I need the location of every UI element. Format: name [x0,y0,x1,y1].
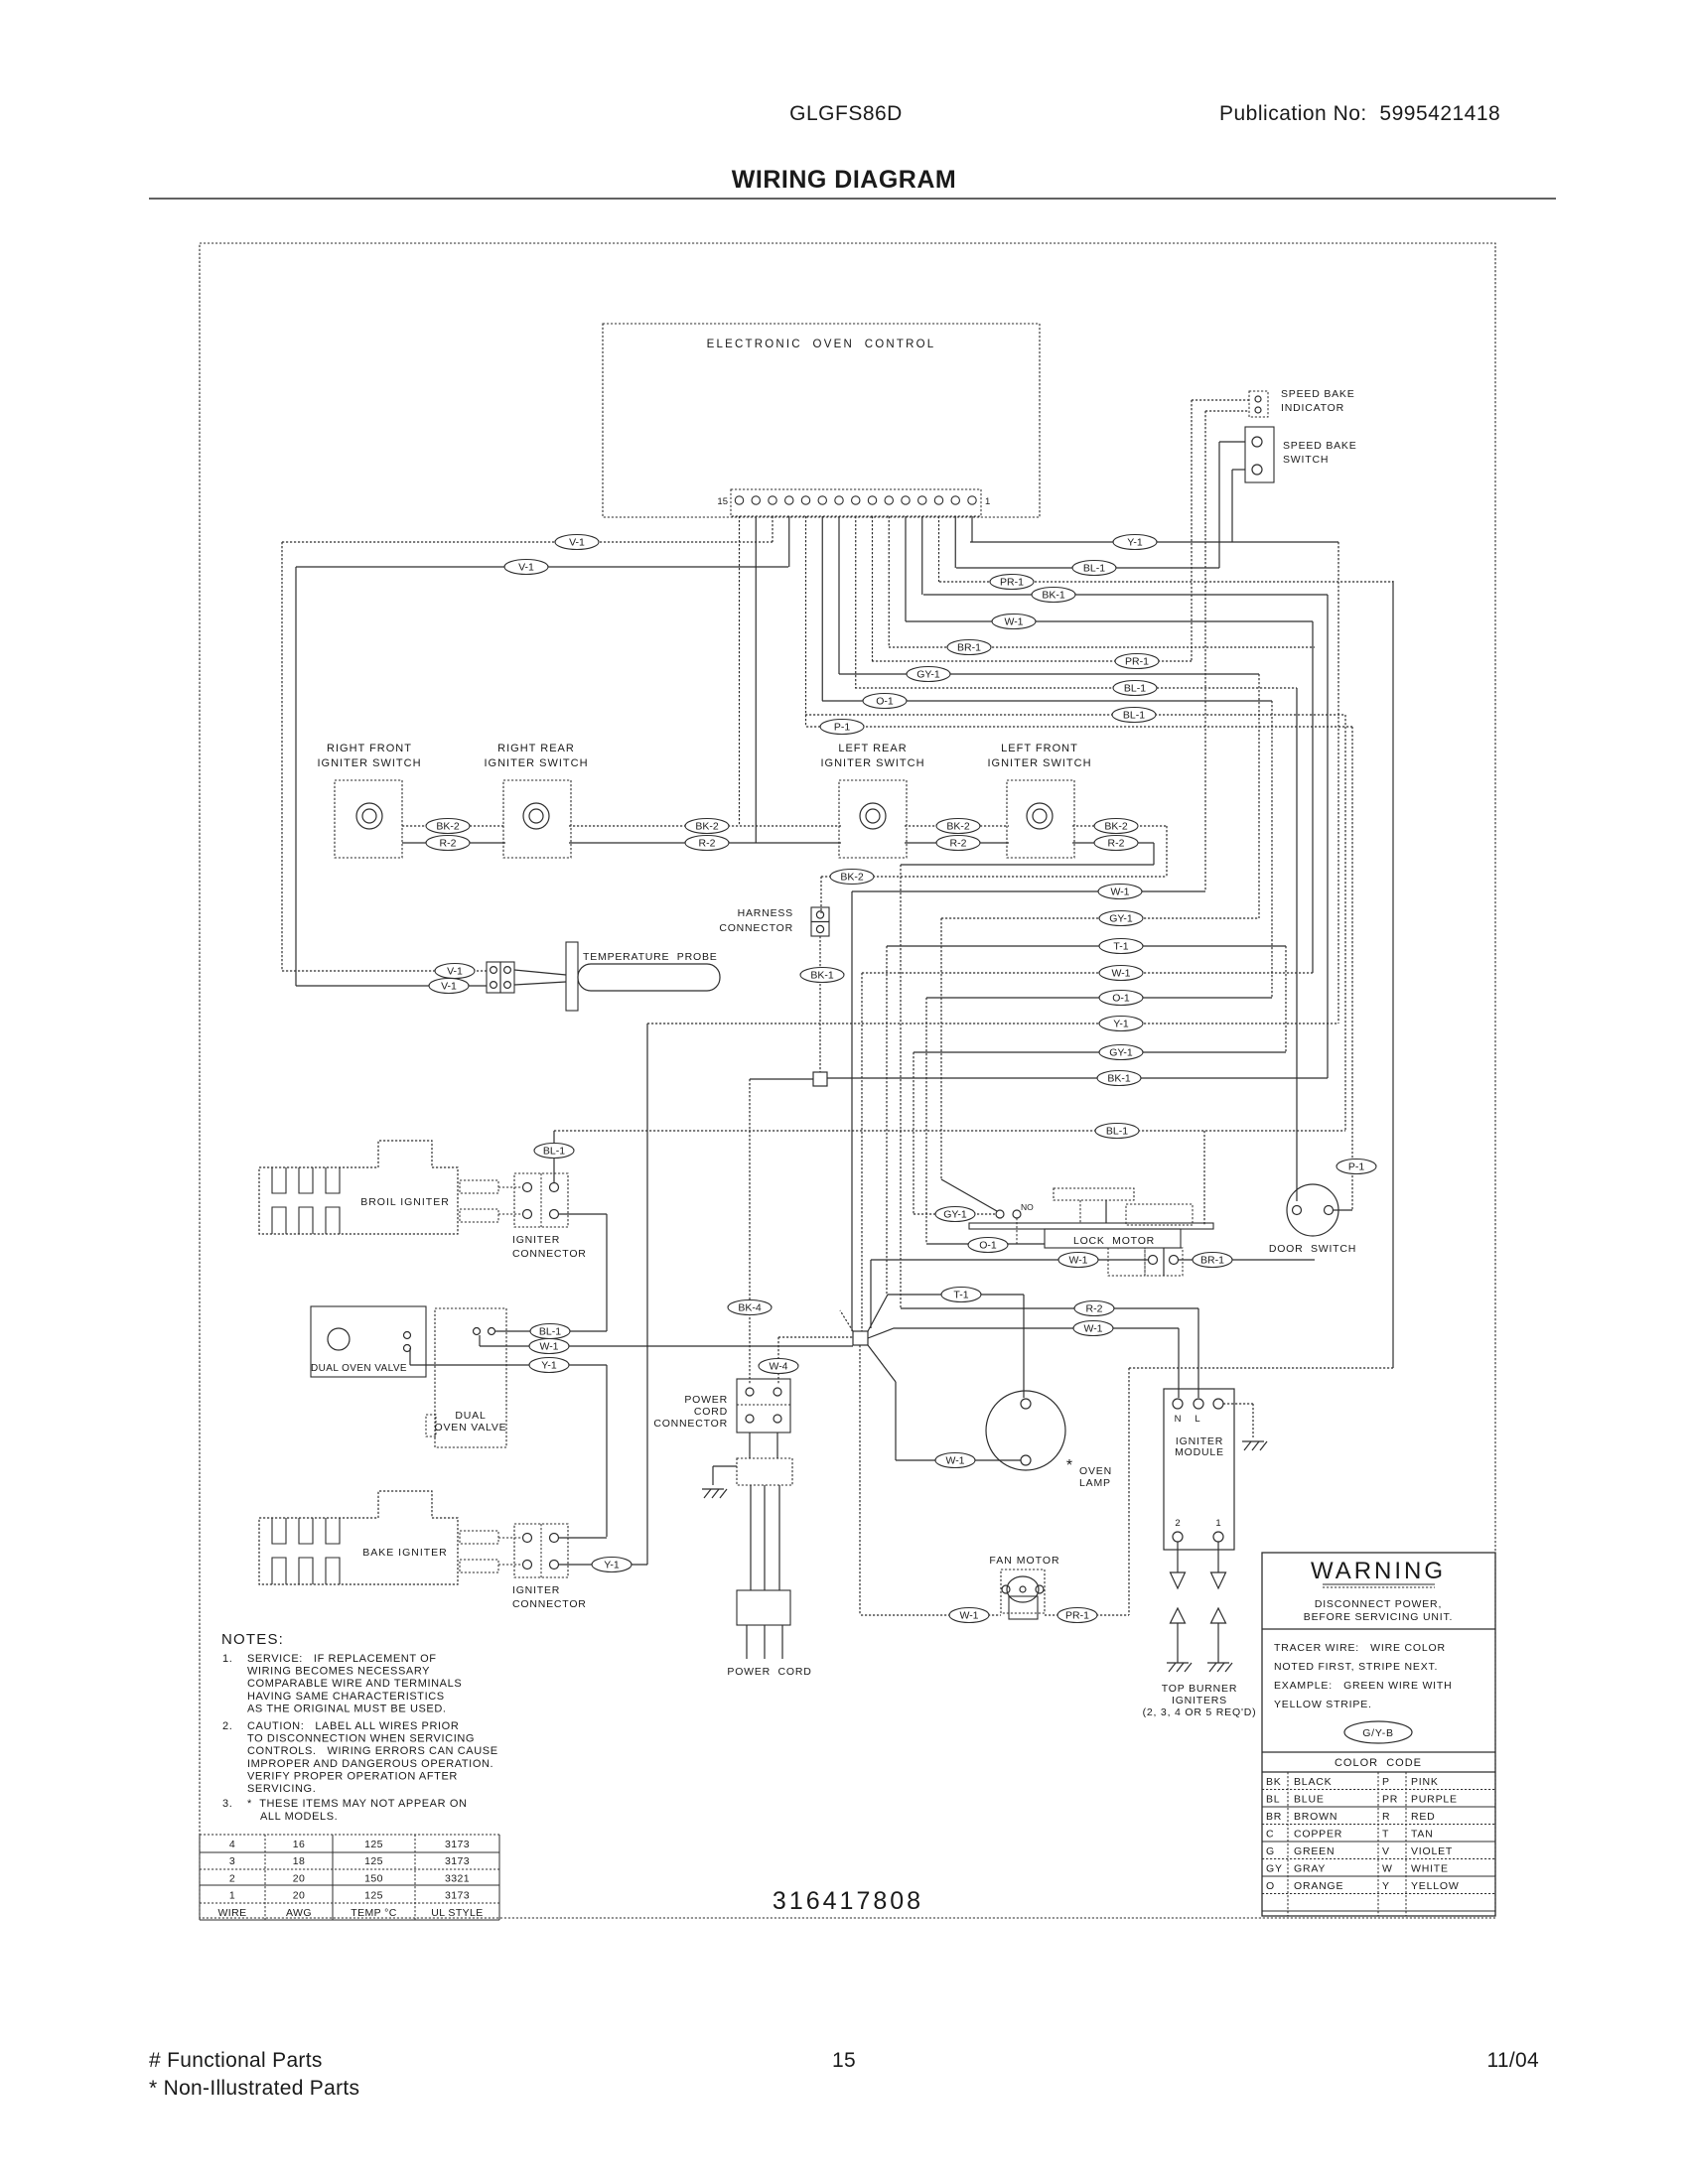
svg-text:18: 18 [293,1855,305,1867]
svg-text:WHITE: WHITE [1411,1863,1449,1875]
svg-text:W-1: W-1 [539,1341,558,1353]
svg-text:IGNITER: IGNITER [512,1584,560,1596]
svg-text:GREEN: GREEN [1294,1845,1335,1857]
svg-text:G/Y-B: G/Y-B [1362,1727,1394,1739]
svg-text:CAUTION: LABEL ALL WIRES PRI: CAUTION: LABEL ALL WIRES PRIOR [247,1720,459,1732]
svg-text:T-1: T-1 [953,1290,968,1301]
svg-text:125: 125 [364,1890,383,1902]
svg-text:DISCONNECT POWER,: DISCONNECT POWER, [1315,1598,1442,1610]
svg-text:R: R [1382,1811,1390,1823]
svg-text:SERVICE: IF REPLACEMENT OF: SERVICE: IF REPLACEMENT OF [247,1653,437,1665]
svg-text:O: O [1266,1880,1275,1892]
svg-text:2.: 2. [222,1720,232,1732]
svg-text:IGNITER SWITCH: IGNITER SWITCH [484,757,588,769]
svg-text:IGNITER: IGNITER [512,1234,560,1246]
svg-text:Y-1: Y-1 [1127,537,1143,549]
svg-text:150: 150 [364,1872,383,1884]
svg-text:W-1: W-1 [959,1610,978,1622]
svg-text:BR: BR [1266,1811,1282,1823]
svg-text:IMPROPER AND DANGEROUS OPERATI: IMPROPER AND DANGEROUS OPERATION. [247,1758,493,1770]
svg-text:DOOR SWITCH: DOOR SWITCH [1269,1243,1356,1255]
svg-text:Y: Y [1382,1880,1390,1892]
svg-text:ORANGE: ORANGE [1294,1880,1343,1892]
svg-text:Y-1: Y-1 [541,1360,557,1372]
svg-text:V-1: V-1 [569,537,585,549]
svg-text:BL-1: BL-1 [1083,563,1105,575]
svg-text:BR-1: BR-1 [1200,1255,1224,1267]
svg-text:CONNECTOR: CONNECTOR [512,1598,587,1610]
svg-text:YELLOW STRIPE.: YELLOW STRIPE. [1274,1699,1372,1710]
svg-text:RED: RED [1411,1811,1436,1823]
svg-text:IGNITER SWITCH: IGNITER SWITCH [987,757,1091,769]
svg-text:BK-2: BK-2 [840,872,864,884]
svg-text:IGNITERS: IGNITERS [1172,1695,1227,1706]
svg-text:GY-1: GY-1 [943,1209,967,1221]
svg-text:3173: 3173 [445,1890,470,1902]
svg-text:TRACER WIRE: WIRE COLOR: TRACER WIRE: WIRE COLOR [1274,1642,1446,1654]
svg-text:BEFORE SERVICING UNIT.: BEFORE SERVICING UNIT. [1304,1611,1453,1623]
svg-text:CONTROLS. WIRING ERRORS CAN: CONTROLS. WIRING ERRORS CAN CAUSE [247,1745,498,1757]
svg-text:PR-1: PR-1 [1065,1610,1089,1622]
svg-text:W-1: W-1 [1111,968,1130,980]
svg-text:INDICATOR: INDICATOR [1281,402,1344,414]
svg-text:BLUE: BLUE [1294,1794,1325,1806]
svg-text:BROIL IGNITER: BROIL IGNITER [360,1196,450,1208]
svg-text:PR-1: PR-1 [1125,656,1149,668]
svg-text:RIGHT FRONT: RIGHT FRONT [327,743,412,754]
svg-text:W-4: W-4 [769,1361,787,1373]
svg-text:BL-1: BL-1 [1124,683,1146,695]
svg-text:WIRING BECOMES NECESSARY: WIRING BECOMES NECESSARY [247,1666,430,1678]
svg-text:TAN: TAN [1411,1829,1434,1841]
svg-text:TEMP °C: TEMP °C [351,1907,396,1919]
svg-text:TEMPERATURE PROBE: TEMPERATURE PROBE [583,951,718,963]
svg-text:* THESE ITEMS MAY NOT APPEAR: * THESE ITEMS MAY NOT APPEAR ON [247,1798,468,1810]
svg-text:3: 3 [229,1855,235,1867]
svg-text:3321: 3321 [445,1872,470,1884]
svg-text:# Functional Parts: # Functional Parts [149,2049,323,2072]
svg-text:P-1: P-1 [834,722,851,734]
svg-text:COLOR CODE: COLOR CODE [1335,1757,1422,1769]
svg-text:WIRING DIAGRAM: WIRING DIAGRAM [732,166,956,194]
svg-text:W-1: W-1 [1068,1255,1087,1267]
svg-text:11/04: 11/04 [1487,2049,1540,2072]
svg-text:20: 20 [293,1890,305,1902]
svg-text:SERVICING.: SERVICING. [247,1783,316,1795]
svg-text:BR-1: BR-1 [957,642,981,654]
svg-text:C: C [1266,1829,1274,1841]
svg-text:W-1: W-1 [1110,887,1129,898]
svg-text:RIGHT REAR: RIGHT REAR [497,743,575,754]
svg-text:CONNECTOR: CONNECTOR [512,1248,587,1260]
svg-text:VERIFY PROPER OPERATION AFTER: VERIFY PROPER OPERATION AFTER [247,1770,458,1782]
svg-text:O-1: O-1 [876,696,894,708]
svg-text:CONNECTOR: CONNECTOR [653,1418,728,1430]
svg-text:UL STYLE: UL STYLE [431,1907,483,1919]
svg-text:LOCK MOTOR: LOCK MOTOR [1073,1235,1155,1247]
svg-text:BAKE IGNITER: BAKE IGNITER [362,1547,448,1559]
svg-text:SWITCH: SWITCH [1283,454,1329,466]
svg-text:POWER: POWER [684,1394,728,1406]
svg-text:BL-1: BL-1 [1123,710,1145,722]
svg-text:ELECTRONIC OVEN CONTROL: ELECTRONIC OVEN CONTROL [707,339,936,350]
svg-text:* Non-Illustrated Parts: * Non-Illustrated Parts [149,2077,359,2100]
svg-text:BK: BK [1266,1776,1282,1788]
svg-text:4: 4 [229,1839,235,1850]
svg-text:T: T [1382,1829,1389,1841]
svg-text:15: 15 [832,2049,856,2072]
svg-text:1: 1 [229,1890,235,1902]
svg-text:BK-1: BK-1 [1042,590,1065,602]
svg-text:VIOLET: VIOLET [1411,1845,1453,1857]
svg-text:LEFT FRONT: LEFT FRONT [1001,743,1078,754]
svg-text:LAMP: LAMP [1079,1477,1111,1489]
svg-text:W: W [1382,1863,1393,1875]
svg-text:BL-1: BL-1 [539,1326,561,1338]
svg-text:N: N [1175,1414,1182,1425]
svg-text:2: 2 [1175,1518,1180,1529]
svg-text:*: * [1066,1457,1072,1474]
svg-text:L: L [1195,1414,1199,1425]
svg-text:BL-1: BL-1 [1106,1126,1128,1138]
svg-text:1: 1 [985,496,990,507]
svg-text:(2, 3, 4 OR 5 REQ'D): (2, 3, 4 OR 5 REQ'D) [1143,1706,1257,1718]
svg-text:ALL MODELS.: ALL MODELS. [260,1811,338,1823]
svg-text:BK-4: BK-4 [738,1302,762,1314]
svg-text:GLGFS86D: GLGFS86D [789,102,903,125]
svg-text:R-2: R-2 [440,838,457,850]
svg-text:T-1: T-1 [1113,941,1128,953]
svg-text:NOTED FIRST, STRIPE NEXT.: NOTED FIRST, STRIPE NEXT. [1274,1661,1438,1673]
svg-text:BLACK: BLACK [1294,1776,1332,1788]
svg-text:Y-1: Y-1 [1113,1019,1129,1030]
svg-text:P-1: P-1 [1348,1161,1365,1173]
svg-text:125: 125 [364,1839,383,1850]
svg-text:OVEN: OVEN [1079,1465,1112,1477]
svg-text:BK-2: BK-2 [946,821,970,833]
svg-text:P: P [1382,1776,1390,1788]
svg-text:YELLOW: YELLOW [1411,1880,1460,1892]
svg-text:V-1: V-1 [441,981,457,993]
svg-text:CORD: CORD [694,1406,728,1418]
svg-text:DUAL: DUAL [455,1410,486,1422]
svg-text:R-2: R-2 [699,838,716,850]
svg-text:PR-1: PR-1 [1000,577,1024,589]
svg-text:BL: BL [1266,1794,1280,1806]
svg-text:SPEED BAKE: SPEED BAKE [1281,388,1355,400]
svg-text:WARNING: WARNING [1311,1558,1446,1584]
svg-text:O-1: O-1 [1112,993,1130,1005]
svg-text:GRAY: GRAY [1294,1863,1326,1875]
svg-text:GY-1: GY-1 [1109,1047,1133,1059]
svg-text:125: 125 [364,1855,383,1867]
svg-text:W-1: W-1 [945,1455,964,1467]
svg-text:AWG: AWG [286,1907,312,1919]
svg-text:NOTES:: NOTES: [221,1631,284,1648]
svg-text:V-1: V-1 [518,562,534,574]
svg-text:PURPLE: PURPLE [1411,1794,1458,1806]
svg-text:BK-1: BK-1 [1107,1073,1131,1085]
svg-text:Publication No: 5995421418: Publication No: 5995421418 [1219,102,1500,125]
svg-text:R-2: R-2 [1108,838,1125,850]
svg-text:R-2: R-2 [1086,1303,1103,1315]
svg-text:TO DISCONNECTION WHEN SERVICIN: TO DISCONNECTION WHEN SERVICING [247,1733,475,1745]
svg-text:R-2: R-2 [950,838,967,850]
svg-text:GY-1: GY-1 [1109,913,1133,925]
svg-text:GY-1: GY-1 [916,669,940,681]
svg-text:316417808: 316417808 [773,1887,923,1915]
svg-text:IGNITER SWITCH: IGNITER SWITCH [820,757,924,769]
svg-text:3173: 3173 [445,1839,470,1850]
svg-text:1: 1 [1215,1518,1220,1529]
svg-text:COMPARABLE WIRE AND TERMINALS: COMPARABLE WIRE AND TERMINALS [247,1678,462,1690]
svg-text:1.: 1. [222,1653,232,1665]
svg-text:W-1: W-1 [1083,1323,1102,1335]
svg-text:DUAL OVEN VALVE: DUAL OVEN VALVE [311,1363,407,1374]
svg-text:G: G [1266,1845,1275,1857]
svg-text:BK-2: BK-2 [436,821,460,833]
svg-text:15: 15 [717,496,728,507]
svg-text:16: 16 [293,1839,305,1850]
svg-text:V-1: V-1 [447,966,463,978]
svg-text:EXAMPLE: GREEN WIRE WITH: EXAMPLE: GREEN WIRE WITH [1274,1680,1452,1692]
svg-text:POWER CORD: POWER CORD [727,1666,811,1678]
svg-text:GY: GY [1266,1863,1283,1875]
svg-text:BK-1: BK-1 [810,970,834,982]
svg-text:COPPER: COPPER [1294,1829,1342,1841]
svg-text:Y-1: Y-1 [604,1560,620,1571]
svg-text:20: 20 [293,1872,305,1884]
svg-text:BK-2: BK-2 [695,821,719,833]
svg-text:3.: 3. [222,1798,232,1810]
svg-text:CONNECTOR: CONNECTOR [719,922,793,934]
svg-text:FAN MOTOR: FAN MOTOR [989,1555,1059,1567]
svg-text:BK-2: BK-2 [1104,821,1128,833]
svg-text:BL-1: BL-1 [543,1146,565,1158]
svg-text:NO: NO [1021,1202,1034,1212]
svg-text:IGNITER SWITCH: IGNITER SWITCH [317,757,421,769]
svg-text:HAVING SAME CHARACTERISTICS: HAVING SAME CHARACTERISTICS [247,1691,445,1703]
svg-text:BROWN: BROWN [1294,1811,1337,1823]
svg-text:PR: PR [1382,1794,1398,1806]
svg-text:V: V [1382,1845,1390,1857]
svg-text:3173: 3173 [445,1855,470,1867]
svg-text:OVEN VALVE: OVEN VALVE [435,1422,507,1433]
svg-text:TOP BURNER: TOP BURNER [1162,1683,1237,1695]
svg-text:PINK: PINK [1411,1776,1439,1788]
svg-text:2: 2 [229,1872,235,1884]
svg-text:W-1: W-1 [1004,616,1023,628]
svg-text:HARNESS: HARNESS [738,907,793,919]
svg-text:O-1: O-1 [979,1240,997,1252]
svg-text:LEFT REAR: LEFT REAR [838,743,907,754]
svg-text:MODULE: MODULE [1175,1446,1224,1458]
svg-text:SPEED BAKE: SPEED BAKE [1283,440,1357,452]
svg-text:AS THE ORIGINAL MUST BE USED.: AS THE ORIGINAL MUST BE USED. [247,1703,447,1714]
svg-text:WIRE: WIRE [217,1907,246,1919]
